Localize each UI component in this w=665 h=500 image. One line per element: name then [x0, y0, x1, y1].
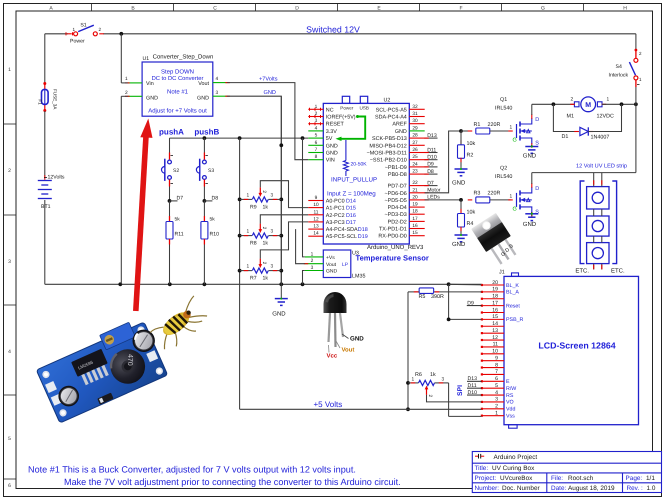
svg-text:12: 12 — [492, 335, 498, 341]
svg-text:24: 24 — [412, 161, 418, 167]
svg-text:F1: F1 — [38, 99, 43, 105]
svg-text:220R: 220R — [488, 191, 501, 197]
svg-text:27: 27 — [412, 140, 418, 146]
svg-text:9: 9 — [315, 195, 318, 201]
svg-text:1: 1 — [311, 251, 314, 257]
svg-text:H: H — [623, 5, 627, 11]
svg-text:23: 23 — [412, 169, 418, 175]
svg-text:10: 10 — [313, 202, 319, 208]
svg-text:2: 2 — [315, 111, 318, 117]
svg-text:220R: 220R — [488, 122, 501, 128]
svg-text:GND: GND — [326, 143, 338, 149]
svg-text:R7: R7 — [250, 276, 257, 282]
svg-text:D10: D10 — [427, 155, 437, 161]
svg-text:6: 6 — [495, 376, 498, 382]
svg-text:1k: 1k — [263, 241, 269, 247]
svg-text:3: 3 — [216, 90, 219, 96]
svg-text:GND: GND — [146, 96, 158, 102]
svg-text:3: 3 — [271, 229, 274, 235]
svg-text:19: 19 — [492, 287, 498, 293]
svg-text:+Vs: +Vs — [326, 255, 335, 261]
svg-text:Rev. :: Rev. : — [627, 485, 643, 492]
svg-text:16: 16 — [412, 223, 418, 229]
svg-text:IRL540: IRL540 — [495, 174, 512, 180]
svg-text:VO: VO — [506, 400, 514, 406]
svg-text:32: 32 — [412, 104, 418, 110]
svg-text:PB0-D8: PB0-D8 — [388, 172, 407, 178]
svg-text:D: D — [295, 5, 299, 11]
svg-text:PD4-D4: PD4-D4 — [388, 205, 407, 211]
svg-text:Vcc: Vcc — [327, 353, 338, 360]
svg-text:U2: U2 — [384, 98, 391, 104]
svg-text:20: 20 — [412, 194, 418, 200]
svg-text:pushB: pushB — [194, 128, 219, 137]
svg-text:2: 2 — [261, 227, 267, 230]
svg-text:~PD3-D3: ~PD3-D3 — [384, 212, 406, 218]
svg-text:IRL540: IRL540 — [495, 105, 512, 111]
svg-text:S1: S1 — [80, 22, 86, 28]
svg-text:18: 18 — [492, 294, 498, 300]
svg-text:D13: D13 — [468, 376, 478, 382]
svg-text:D8: D8 — [212, 195, 219, 201]
svg-text:31: 31 — [412, 111, 418, 117]
svg-text:12Volts: 12Volts — [48, 175, 65, 181]
svg-text:20-50K: 20-50K — [351, 162, 368, 168]
svg-text:D13: D13 — [427, 133, 437, 139]
svg-text:GND: GND — [326, 151, 338, 157]
svg-text:GND: GND — [452, 241, 466, 248]
svg-text:29: 29 — [412, 125, 418, 131]
svg-text:1k: 1k — [263, 204, 269, 210]
svg-text:2: 2 — [125, 90, 128, 96]
svg-text:Vin: Vin — [146, 81, 154, 87]
svg-text:S3: S3 — [208, 168, 214, 174]
svg-text:2: 2 — [99, 27, 102, 32]
svg-text:C: C — [213, 5, 217, 11]
svg-text:BL_A: BL_A — [506, 290, 519, 296]
svg-text:TX-PD1-D1: TX-PD1-D1 — [379, 227, 407, 233]
svg-text:18: 18 — [412, 209, 418, 215]
svg-text:1: 1 — [247, 264, 250, 270]
svg-text:1: 1 — [247, 229, 250, 235]
svg-text:Vout: Vout — [198, 81, 209, 87]
svg-text:G: G — [541, 5, 545, 11]
svg-text:D8: D8 — [427, 169, 434, 175]
svg-text:D9: D9 — [427, 162, 434, 168]
svg-text:S2: S2 — [173, 168, 179, 174]
svg-text:Vout: Vout — [326, 262, 337, 268]
svg-text:Vdd: Vdd — [506, 407, 515, 413]
svg-text:E: E — [506, 379, 510, 385]
svg-text:G: G — [513, 138, 517, 144]
svg-text:D7: D7 — [427, 180, 434, 186]
svg-text:GND: GND — [326, 269, 338, 275]
svg-text:GND: GND — [452, 180, 466, 187]
svg-text:Doc. Number: Doc. Number — [502, 485, 541, 492]
svg-text:Adjust for +7 Volts out: Adjust for +7 Volts out — [148, 108, 207, 115]
svg-text:5k: 5k — [175, 217, 181, 223]
svg-text:28: 28 — [412, 133, 418, 139]
svg-text:D17: D17 — [346, 220, 356, 226]
svg-text:1: 1 — [510, 194, 513, 200]
svg-text:GND: GND — [272, 310, 286, 317]
svg-text:Project:: Project: — [475, 475, 497, 482]
svg-text:PD7-D7: PD7-D7 — [388, 184, 407, 190]
svg-text:Power: Power — [70, 39, 85, 45]
svg-text:Note #1: Note #1 — [167, 89, 189, 96]
svg-text:7: 7 — [495, 369, 498, 375]
svg-text:~PB1-D9: ~PB1-D9 — [385, 165, 407, 171]
svg-text:8: 8 — [315, 154, 318, 160]
svg-text:1k: 1k — [263, 276, 269, 282]
svg-text:Interlock: Interlock — [609, 73, 629, 79]
svg-text:8: 8 — [495, 362, 498, 368]
svg-text:~PD6-D6: ~PD6-D6 — [384, 191, 406, 197]
svg-text:UV Curing Box: UV Curing Box — [492, 465, 535, 472]
svg-text:Power: Power — [340, 105, 353, 110]
svg-text:R5: R5 — [419, 294, 426, 300]
svg-text:1/1: 1/1 — [646, 475, 655, 482]
svg-text:6: 6 — [8, 483, 11, 489]
svg-text:+7Volts: +7Volts — [259, 76, 278, 83]
svg-text:J1: J1 — [499, 269, 505, 275]
svg-text:R2: R2 — [467, 153, 474, 159]
svg-text:IOREF(+5V): IOREF(+5V) — [326, 115, 356, 121]
svg-text:BT1: BT1 — [41, 204, 51, 210]
svg-text:D19: D19 — [358, 234, 368, 240]
svg-text:RESET: RESET — [326, 122, 345, 128]
svg-text:3: 3 — [442, 376, 445, 382]
svg-text:D11: D11 — [427, 147, 436, 153]
svg-text:1k: 1k — [430, 372, 436, 378]
svg-text:A1-PC1: A1-PC1 — [326, 206, 345, 212]
svg-text:17: 17 — [412, 216, 418, 222]
svg-text:PD2-D2: PD2-D2 — [388, 219, 407, 225]
svg-text:SDA-PC4-A4: SDA-PC4-A4 — [375, 115, 407, 121]
svg-text:4: 4 — [495, 390, 498, 396]
svg-text:Step DOWN: Step DOWN — [161, 69, 194, 76]
svg-text:S4: S4 — [616, 64, 622, 70]
svg-text:+5 Volts: +5 Volts — [314, 400, 343, 409]
svg-text:3: 3 — [271, 192, 274, 198]
svg-text:R10: R10 — [210, 232, 220, 238]
svg-text:A4-PC4-SDA: A4-PC4-SDA — [326, 227, 358, 233]
svg-text:~MOSI-PB3-D11: ~MOSI-PB3-D11 — [367, 151, 407, 157]
svg-text:Converter_Step_Down: Converter_Step_Down — [153, 54, 214, 61]
svg-text:16: 16 — [492, 307, 498, 313]
svg-text:D: D — [535, 186, 539, 192]
svg-text:PSB_R: PSB_R — [506, 317, 524, 323]
svg-text:Switched 12V: Switched 12V — [306, 24, 360, 34]
svg-text:26: 26 — [412, 147, 418, 153]
svg-text:Q2: Q2 — [500, 165, 507, 171]
svg-text:SPI: SPI — [457, 385, 464, 396]
svg-text:GND: GND — [523, 153, 537, 160]
svg-text:D1: D1 — [562, 134, 569, 140]
svg-text:D16: D16 — [346, 213, 356, 219]
svg-text:DC to DC Converter: DC to DC Converter — [152, 75, 204, 82]
svg-text:13: 13 — [313, 224, 319, 230]
svg-text:11: 11 — [493, 342, 498, 348]
svg-text:Number:: Number: — [475, 485, 500, 492]
svg-text:3: 3 — [271, 264, 274, 270]
svg-text:7: 7 — [315, 147, 318, 153]
svg-text:5: 5 — [315, 133, 318, 139]
svg-text:R9: R9 — [250, 204, 257, 210]
svg-text:GND: GND — [395, 129, 407, 135]
svg-text:LCD-Screen 12864: LCD-Screen 12864 — [538, 341, 615, 351]
svg-text:RX-PD0-D0: RX-PD0-D0 — [378, 234, 406, 240]
svg-text:A0-PC0: A0-PC0 — [326, 199, 345, 205]
svg-text:Temperature Sensor: Temperature Sensor — [356, 253, 429, 262]
svg-text:1: 1 — [607, 96, 610, 102]
svg-text:2: 2 — [571, 96, 574, 102]
svg-text:A5-PC5-SCL: A5-PC5-SCL — [326, 234, 357, 240]
svg-text:Title:: Title: — [475, 465, 489, 472]
svg-text:RS: RS — [506, 393, 514, 399]
svg-text:R3: R3 — [474, 191, 481, 197]
svg-text:1: 1 — [412, 376, 415, 382]
svg-text:Vss: Vss — [506, 413, 515, 419]
svg-text:390R: 390R — [431, 294, 444, 300]
svg-text:10k: 10k — [467, 141, 476, 147]
svg-text:2: 2 — [495, 404, 498, 410]
svg-text:19: 19 — [412, 202, 418, 208]
svg-text:F: F — [459, 5, 462, 11]
svg-text:FUSE_3A: FUSE_3A — [53, 89, 58, 110]
svg-text:5: 5 — [8, 436, 11, 442]
svg-text:NC: NC — [326, 107, 334, 113]
svg-text:UVcureBox: UVcureBox — [500, 475, 533, 482]
svg-text:ETC.: ETC. — [575, 268, 589, 275]
svg-text:VIN: VIN — [326, 158, 335, 164]
svg-text:1: 1 — [315, 104, 318, 110]
svg-text:~PD5-D5: ~PD5-D5 — [384, 198, 406, 204]
svg-text:D18: D18 — [358, 227, 368, 233]
svg-text:30: 30 — [412, 118, 418, 124]
svg-text:5: 5 — [495, 383, 498, 389]
svg-text:D: D — [535, 117, 539, 123]
svg-text:File:: File: — [551, 475, 563, 482]
svg-text:G: G — [513, 206, 517, 212]
svg-text:12 Volt UV LED strip: 12 Volt UV LED strip — [576, 162, 627, 169]
svg-text:R11: R11 — [175, 232, 184, 238]
svg-text:R/W: R/W — [506, 386, 516, 392]
svg-text:Root.sch: Root.sch — [568, 475, 594, 482]
svg-text:2: 2 — [8, 168, 11, 174]
svg-text:Page:: Page: — [626, 475, 643, 482]
svg-text:D9: D9 — [467, 300, 474, 306]
svg-text:Input Z = 100Meg: Input Z = 100Meg — [327, 190, 376, 197]
svg-text:MISO-PB4-D12: MISO-PB4-D12 — [369, 143, 406, 149]
svg-text:1.0: 1.0 — [647, 485, 656, 492]
svg-text:SCK-PB5-D13: SCK-PB5-D13 — [372, 136, 407, 142]
svg-text:2: 2 — [261, 262, 267, 265]
svg-text:BL_K: BL_K — [506, 283, 519, 289]
svg-text:15: 15 — [492, 314, 498, 320]
svg-text:12VDC: 12VDC — [597, 113, 614, 119]
svg-text:1N4007: 1N4007 — [591, 134, 610, 140]
svg-text:GND: GND — [350, 336, 364, 343]
svg-text:10k: 10k — [467, 210, 476, 216]
svg-text:3: 3 — [495, 397, 498, 403]
svg-text:4: 4 — [8, 349, 11, 355]
svg-text:AREF: AREF — [392, 122, 407, 128]
svg-text:Q1: Q1 — [500, 97, 507, 103]
svg-text:1: 1 — [247, 192, 250, 198]
svg-text:13: 13 — [492, 328, 498, 334]
svg-text:LP: LP — [342, 262, 349, 268]
svg-text:M1: M1 — [567, 113, 575, 119]
svg-text:1: 1 — [8, 67, 11, 73]
svg-text:3.3V: 3.3V — [326, 129, 337, 135]
svg-text:A2-PC2: A2-PC2 — [326, 213, 345, 219]
svg-text:M: M — [585, 102, 591, 109]
svg-text:A3-PC3: A3-PC3 — [326, 220, 345, 226]
svg-text:3: 3 — [8, 259, 11, 265]
svg-text:5V: 5V — [326, 136, 333, 142]
svg-text:14: 14 — [313, 231, 319, 237]
svg-text:15: 15 — [412, 230, 418, 236]
svg-text:GND: GND — [264, 90, 276, 96]
svg-text:ETC.: ETC. — [611, 268, 625, 275]
svg-text:1: 1 — [125, 76, 128, 82]
svg-text:5k: 5k — [210, 217, 216, 223]
svg-text:1: 1 — [510, 125, 513, 131]
svg-text:2: 2 — [311, 258, 314, 264]
svg-text:Note #1 This is a Buck Convert: Note #1 This is a Buck Converter, adjust… — [28, 465, 356, 475]
svg-text:Arduino Project: Arduino Project — [494, 454, 538, 461]
svg-text:2: 2 — [427, 395, 433, 398]
svg-text:SCL-PC5-A5: SCL-PC5-A5 — [376, 107, 407, 113]
svg-text:2: 2 — [261, 190, 267, 193]
svg-text:R8: R8 — [250, 241, 257, 247]
svg-text:D10: D10 — [468, 390, 478, 396]
svg-text:17: 17 — [492, 300, 498, 306]
svg-text:10: 10 — [492, 349, 498, 355]
svg-text:D11: D11 — [468, 383, 477, 389]
svg-text:14: 14 — [492, 321, 498, 327]
svg-text:Reset: Reset — [506, 303, 520, 309]
svg-text:GND: GND — [197, 96, 209, 102]
svg-text:6: 6 — [315, 140, 318, 146]
svg-text:1: 1 — [495, 410, 498, 416]
svg-text:25: 25 — [412, 154, 418, 160]
svg-text:1: 1 — [73, 27, 76, 32]
svg-text:D7: D7 — [177, 195, 184, 201]
svg-text:21: 21 — [412, 187, 418, 193]
svg-text:4: 4 — [315, 125, 318, 131]
svg-text:R4: R4 — [467, 221, 474, 227]
svg-text:R1: R1 — [474, 122, 481, 128]
svg-text:U1: U1 — [143, 56, 150, 62]
svg-text:Date:: Date: — [551, 485, 566, 492]
svg-text:4: 4 — [216, 76, 219, 82]
svg-text:S: S — [535, 141, 539, 147]
svg-text:LM35: LM35 — [352, 274, 366, 280]
svg-text:Arduino_UNO_REV3: Arduino_UNO_REV3 — [367, 244, 424, 251]
svg-text:Make the 7V volt adjustment pr: Make the 7V volt adjustment prior to con… — [64, 477, 401, 487]
svg-text:11: 11 — [314, 209, 319, 215]
svg-text:Vout: Vout — [342, 347, 355, 354]
svg-text:12: 12 — [313, 216, 319, 222]
svg-text:22: 22 — [412, 180, 418, 186]
svg-text:USB: USB — [360, 105, 369, 110]
svg-text:pushA: pushA — [159, 128, 184, 137]
svg-text:3: 3 — [311, 265, 314, 271]
svg-text:9: 9 — [495, 355, 498, 361]
svg-text:R6: R6 — [415, 372, 422, 378]
svg-text:D14: D14 — [346, 199, 356, 205]
svg-text:~SS1-PB2-D10: ~SS1-PB2-D10 — [370, 158, 407, 164]
svg-text:470: 470 — [126, 354, 133, 366]
svg-text:D15: D15 — [346, 206, 356, 212]
svg-text:3: 3 — [315, 118, 318, 124]
svg-text:GND: GND — [523, 221, 537, 228]
svg-text:August 18, 2019: August 18, 2019 — [568, 485, 615, 492]
svg-text:INPUT_PULLUP: INPUT_PULLUP — [331, 176, 377, 183]
svg-text:20: 20 — [492, 280, 498, 286]
